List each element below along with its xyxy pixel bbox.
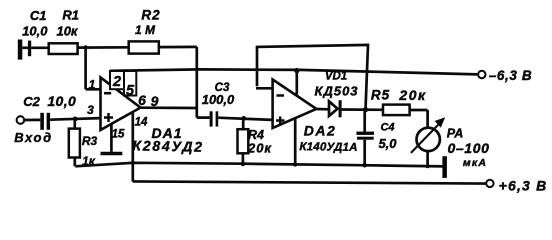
- svg-text:R5: R5: [371, 88, 390, 103]
- svg-text:3: 3: [87, 103, 94, 117]
- svg-text:5,0: 5,0: [378, 136, 397, 151]
- svg-text:R2: R2: [141, 8, 160, 23]
- svg-text:R1: R1: [62, 8, 79, 23]
- svg-text:1: 1: [89, 78, 96, 92]
- svg-text:10к: 10к: [56, 24, 78, 39]
- svg-text:К284УД2: К284УД2: [132, 137, 204, 154]
- svg-text:5: 5: [126, 83, 135, 99]
- svg-text:C1: C1: [30, 8, 47, 23]
- svg-text:C4: C4: [380, 122, 394, 134]
- svg-text:14: 14: [135, 117, 148, 129]
- svg-text:C2: C2: [23, 94, 40, 109]
- svg-text:PA: PA: [447, 127, 463, 141]
- svg-text:КД503: КД503: [314, 84, 358, 99]
- svg-text:VD1: VD1: [325, 71, 347, 83]
- svg-text:2: 2: [112, 74, 121, 90]
- svg-text:Вход: Вход: [14, 130, 53, 145]
- svg-text:6: 6: [138, 92, 146, 108]
- svg-text:0–100: 0–100: [448, 140, 490, 156]
- svg-text:1 М: 1 М: [135, 23, 156, 37]
- svg-text:R3: R3: [82, 134, 98, 148]
- svg-text:10,0: 10,0: [47, 93, 76, 109]
- svg-text:15: 15: [112, 129, 125, 141]
- svg-text:+6,3 В: +6,3 В: [499, 178, 548, 194]
- svg-text:–6,3 В: –6,3 В: [489, 68, 532, 83]
- svg-text:К140УД1А: К140УД1А: [299, 141, 357, 154]
- svg-text:100,0: 100,0: [202, 92, 235, 107]
- svg-text:20к: 20к: [398, 87, 426, 103]
- svg-text:20к: 20к: [247, 141, 272, 156]
- svg-text:9: 9: [151, 93, 159, 109]
- svg-text:мкА: мкА: [463, 157, 487, 169]
- svg-text:10,0: 10,0: [22, 24, 48, 39]
- svg-text:1к: 1к: [82, 154, 96, 168]
- svg-text:DA2: DA2: [304, 123, 337, 139]
